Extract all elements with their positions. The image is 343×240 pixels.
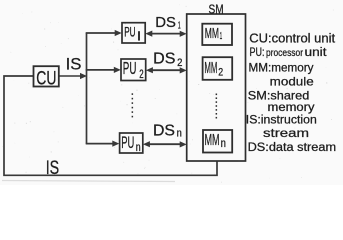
- svg-text:PU: PU: [121, 133, 134, 152]
- scan noise speckles: [2, 4, 334, 182]
- wire CU to IS bus: [59, 75, 82, 77]
- box PU1 (processor unit 1): [122, 23, 145, 43]
- wire DSn double arrow PUn to SM: [148, 143, 183, 145]
- svg-text:CU: CU: [36, 68, 56, 90]
- svg-text:MM: MM: [204, 60, 217, 77]
- svg-text:SM: SM: [209, 2, 224, 16]
- wire IS feedback loop: SM bottom, down, left, up, into CU: [4, 76, 217, 175]
- svg-text:DS:data stream: DS:data stream: [248, 140, 337, 154]
- svg-text:PU:: PU:: [250, 45, 265, 59]
- paper background: [0, 0, 343, 185]
- arrowhead into PU1: [115, 30, 122, 36]
- ellipsis dots between PU2 and PUn: [132, 93, 134, 117]
- svg-text:IS: IS: [66, 54, 82, 73]
- wire bus to PUn: [86, 143, 114, 145]
- svg-text:DS: DS: [155, 14, 176, 31]
- faint scan smudge under bottom line: [2, 181, 175, 182]
- svg-text:unit: unit: [305, 47, 328, 59]
- box MM2 (memory module 2): [203, 57, 233, 80]
- svg-text:PU: PU: [123, 58, 137, 78]
- box MM1 (memory module 1): [202, 24, 232, 45]
- wire IS bus vertical: [86, 33, 88, 144]
- svg-text:DS: DS: [153, 123, 175, 140]
- box PUn (processor unit n): [120, 133, 143, 153]
- ellipsis dots between MM2 and MMn: [216, 94, 218, 119]
- wire DS1 double arrow PU1 to SM: [150, 33, 182, 35]
- svg-text:2: 2: [139, 69, 143, 81]
- svg-text:module: module: [270, 74, 314, 88]
- box PU2 (processor unit 2): [121, 59, 146, 81]
- svg-text:1: 1: [220, 30, 223, 42]
- box MMn (memory module n): [203, 130, 232, 153]
- wire bus to PU1: [86, 32, 116, 34]
- svg-text:processor: processor: [266, 47, 303, 59]
- svg-text:2: 2: [177, 57, 182, 69]
- svg-text:2: 2: [218, 67, 223, 79]
- box SM (shared memory, outer): [187, 14, 246, 161]
- box CU (control unit): [34, 66, 59, 86]
- svg-text:n: n: [136, 142, 141, 154]
- wire DS2 double arrow PU2 to SM: [151, 69, 183, 71]
- svg-text:IS:instruction: IS:instruction: [246, 113, 317, 127]
- arrowhead into bus: [80, 73, 87, 79]
- svg-text:DS: DS: [153, 50, 175, 67]
- svg-text:n: n: [177, 127, 182, 139]
- svg-text:CU:control unit: CU:control unit: [249, 31, 335, 45]
- arrowhead into PU2: [114, 67, 121, 73]
- svg-text:stream: stream: [263, 126, 309, 140]
- svg-text:MM: MM: [205, 132, 220, 149]
- wire bus to PU2: [86, 69, 115, 71]
- svg-text:MM:memory: MM:memory: [249, 60, 314, 74]
- svg-text:MM: MM: [205, 25, 219, 42]
- svg-text:PU: PU: [124, 25, 135, 40]
- svg-text:1: 1: [178, 20, 181, 32]
- svg-text:n: n: [221, 138, 226, 150]
- arrowhead into PUn: [112, 141, 119, 147]
